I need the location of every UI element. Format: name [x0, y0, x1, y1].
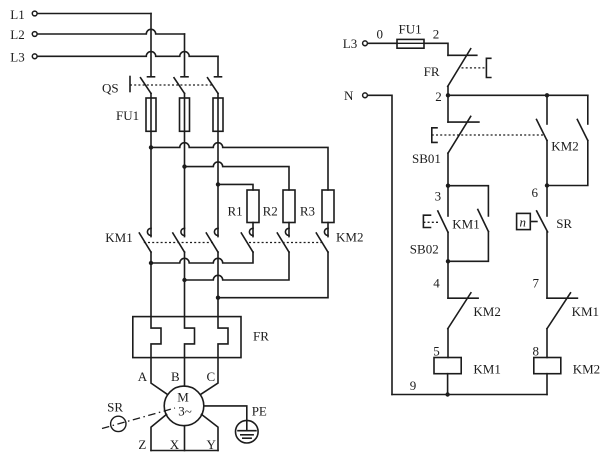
- svg-text:6: 6: [532, 185, 539, 200]
- node 3 junction: [446, 184, 450, 188]
- wire L2 pole drop: [184, 34, 186, 76]
- KM2 pole 2 fixed hook: [285, 228, 289, 235]
- branch KM2: SB01 NO contact top terminal: [546, 95, 548, 124]
- SB02 actuator bracket: [423, 215, 430, 227]
- wire FR contact to node 2: [447, 86, 449, 95]
- svg-text:KM1: KM1: [452, 217, 479, 232]
- ground PE symbol circle: [236, 420, 259, 443]
- junction pole 1 feed: [149, 145, 153, 149]
- svg-text:X: X: [170, 437, 180, 452]
- svg-text:2: 2: [435, 89, 442, 104]
- wire KM1 NC to node 8 / coil: [546, 329, 548, 358]
- terminal L3: [32, 54, 37, 59]
- wire SB01 to node 3: [447, 153, 449, 186]
- junction node 2 at KM2 branch: [545, 93, 549, 97]
- wire node 4 to KM2 NC: [447, 261, 449, 298]
- svg-text:KM2: KM2: [473, 304, 500, 319]
- resistor R1: [247, 190, 259, 223]
- KM2 NC fixed bar: [448, 297, 478, 299]
- fuse FU1 pole 3: [213, 98, 223, 131]
- KM1 NC fixed bar: [547, 297, 577, 299]
- svg-text:Y: Y: [207, 437, 217, 452]
- QS pole 2 fixed tick: [181, 76, 188, 78]
- SR n box: [517, 213, 531, 229]
- wire KM2 pole 1 bypass with hops: [151, 252, 253, 263]
- svg-text:4: 4: [433, 275, 440, 290]
- wire pole 1 to R3 with hops: [151, 143, 328, 190]
- svg-text:KM2: KM2: [551, 138, 578, 153]
- svg-text:PE: PE: [252, 404, 267, 419]
- junction KM2 pole 3 to main pole 3: [216, 296, 220, 300]
- wire motor lead Z: [151, 414, 167, 450]
- SR n box tick: [530, 221, 537, 223]
- FR heater pole 2 and wire to motor B: [185, 252, 195, 386]
- svg-text:SR: SR: [107, 400, 123, 415]
- svg-text:SB01: SB01: [412, 151, 441, 166]
- KM1 pole 3 fixed hook: [214, 228, 218, 235]
- wire SR to node 7: [546, 232, 548, 298]
- svg-text:B: B: [171, 369, 180, 384]
- wire N rail: [368, 95, 392, 394]
- wire coil KM1 to rail 9: [447, 374, 449, 395]
- svg-text:7: 7: [533, 275, 540, 290]
- svg-text:KM1: KM1: [473, 362, 500, 377]
- speed relay SR sensor circle: [111, 416, 126, 431]
- KM1 pole 1 fixed hook: [147, 228, 151, 235]
- KM2 pole 3 blade: [316, 233, 328, 252]
- wire pole 1 QS to KM1 contact: [150, 93, 152, 236]
- KM2 self-hold blade: [577, 120, 588, 141]
- terminal L2: [32, 32, 37, 37]
- wire R2 to KM2 pole 2: [288, 223, 290, 237]
- control: fuse FU1: [397, 39, 424, 48]
- control: wire L3 to fuse: [368, 42, 397, 44]
- FR heater pole 1 and wire to motor A: [151, 252, 168, 395]
- svg-text:KM1: KM1: [105, 230, 132, 245]
- resistor R3: [322, 190, 334, 223]
- wire pole 3 to R1: [218, 184, 253, 190]
- wire KM2 pole 2 bypass with hop: [185, 252, 290, 280]
- svg-text:M: M: [177, 389, 189, 404]
- SB01 NC blade: [448, 116, 471, 153]
- svg-text:A: A: [138, 369, 148, 384]
- svg-text:FR: FR: [253, 329, 269, 344]
- wire motor to PE: [204, 406, 247, 431]
- coil KM2: [534, 358, 561, 374]
- svg-text:KM2: KM2: [573, 362, 600, 377]
- FR NC contact blade: [448, 49, 471, 87]
- KM1 pole 1 blade: [139, 233, 151, 252]
- SB02 linkage dotted: [423, 221, 440, 223]
- wire rail 9: [392, 394, 547, 396]
- wire R3 to KM2 pole 3: [327, 223, 329, 237]
- SB02 NO blade: [438, 211, 448, 232]
- KM2 pole 1 blade: [241, 233, 253, 252]
- wire L1 pole drop: [150, 14, 152, 76]
- wire L2 horizontal with hop: [38, 29, 185, 34]
- wire to node 6: [546, 141, 548, 186]
- junction KM2 pole 1 to main pole 1: [149, 261, 153, 265]
- junction rail 9 at KM1 coil: [445, 392, 449, 396]
- motor M circle: [164, 386, 204, 426]
- disconnect QS handle bar: [129, 77, 131, 92]
- svg-text:SB02: SB02: [410, 242, 439, 257]
- SR contact top terminal: [546, 186, 548, 217]
- SR shaft link dash-dot: [102, 408, 175, 429]
- KM1 NC blade: [547, 293, 571, 329]
- svg-text:R1: R1: [228, 204, 243, 219]
- control: wire fuse to FR contact: [424, 43, 448, 55]
- resistor R2: [283, 190, 295, 223]
- svg-text:KM2: KM2: [336, 230, 363, 245]
- QS pole 1 blade: [141, 78, 152, 94]
- wire pole 2 QS to KM1 contact: [184, 93, 186, 236]
- FR trip actuator bracket: [486, 58, 490, 77]
- KM2 self-hold top terminal: [587, 95, 589, 124]
- FR NC contact fixed bar: [448, 54, 477, 56]
- wire KM2 pole 3 bypass: [218, 252, 328, 298]
- wire KM2 self-hold to node 6: [547, 141, 588, 186]
- svg-text:R3: R3: [300, 204, 315, 219]
- control: terminal L3: [363, 41, 368, 46]
- wire node 2 to SB01: [447, 95, 449, 122]
- wire R1 to KM2 pole 1: [252, 223, 254, 237]
- KM2 pole 2 blade: [277, 233, 289, 252]
- thermal relay FR box: [133, 317, 241, 358]
- svg-text:3: 3: [435, 189, 442, 204]
- KM1 linkage dotted: [144, 242, 215, 244]
- svg-text:FR: FR: [424, 64, 440, 79]
- svg-text:9: 9: [410, 378, 417, 393]
- SB02 NO top terminal: [447, 186, 449, 216]
- ground PE bar 3: [243, 437, 251, 439]
- terminal N: [363, 93, 368, 98]
- svg-text:FU1: FU1: [399, 22, 422, 37]
- coil KM1: [434, 358, 461, 374]
- svg-text:Z: Z: [138, 437, 146, 452]
- wire motor lead Y: [202, 414, 219, 450]
- wire SB02 to node 4: [447, 232, 449, 261]
- node 6 junction: [545, 183, 549, 187]
- svg-text:R2: R2: [263, 204, 278, 219]
- svg-text:SR: SR: [556, 216, 572, 231]
- svg-text:2: 2: [433, 26, 440, 41]
- SB01 linkage dotted to KM2 contact: [432, 134, 543, 136]
- svg-text:3~: 3~: [178, 404, 192, 419]
- KM2 pole 3 fixed hook: [324, 228, 328, 235]
- SB01 NC fixed bar: [448, 121, 479, 123]
- svg-text:8: 8: [533, 344, 540, 359]
- svg-text:N: N: [344, 88, 354, 103]
- KM2 NC blade: [448, 293, 471, 329]
- junction pole 2 feed: [182, 164, 186, 168]
- KM1 pole 2 blade: [173, 233, 185, 252]
- wire rotor short bar: [151, 450, 218, 452]
- terminal L1: [32, 11, 37, 16]
- wire L3 horizontal with hops: [38, 52, 218, 57]
- FR trip linkage dotted: [462, 67, 487, 69]
- KM2 linkage dotted: [249, 242, 322, 244]
- QS pole 3 blade: [208, 78, 219, 94]
- svg-text:L1: L1: [10, 7, 24, 22]
- svg-text:C: C: [207, 369, 216, 384]
- wire KM1 aux to node 4: [448, 232, 488, 262]
- svg-text:L3: L3: [343, 36, 357, 51]
- wire pole 2 to R2 with hop: [185, 162, 290, 190]
- KM2 pole 1 fixed hook: [249, 228, 253, 235]
- KM1 pole 3 blade: [206, 233, 218, 252]
- svg-text:5: 5: [433, 344, 440, 359]
- svg-text:KM1: KM1: [572, 304, 599, 319]
- KM1 pole 2 fixed hook: [181, 228, 185, 235]
- node 2 junction: [446, 93, 450, 97]
- wire KM2 NC to node 5 / coil: [447, 329, 449, 358]
- FR heater pole 3 and wire to motor C: [200, 252, 228, 395]
- svg-text:n: n: [520, 215, 527, 230]
- control: wire through fuse: [397, 42, 424, 44]
- QS pole 2 blade: [174, 78, 185, 94]
- SB01 NO linked blade: [537, 120, 548, 141]
- junction KM2 pole 2 to main pole 2: [182, 278, 186, 282]
- svg-text:QS: QS: [102, 81, 119, 96]
- svg-text:FU1: FU1: [116, 108, 139, 123]
- QS pole 3 fixed tick: [215, 76, 222, 78]
- wire pole 3 QS to KM1 contact: [217, 93, 219, 236]
- svg-text:L2: L2: [10, 27, 24, 42]
- SB01 actuator bracket: [432, 128, 437, 143]
- wire motor lead X: [184, 426, 186, 451]
- svg-text:0: 0: [377, 26, 384, 41]
- node 4 junction: [446, 259, 450, 263]
- SR contact blade: [537, 211, 548, 232]
- QS pole 1 fixed tick: [148, 76, 155, 78]
- fuse FU1 pole 2: [180, 98, 190, 131]
- svg-text:L3: L3: [10, 50, 24, 65]
- wire L3 pole drop: [217, 56, 219, 75]
- wire node 3 to KM1 aux: [448, 186, 488, 216]
- ground PE bar 1: [238, 430, 256, 432]
- junction pole 3 feed: [216, 182, 220, 186]
- wire coil KM2 to rail 9: [546, 374, 548, 395]
- ground PE bar 2: [241, 434, 253, 436]
- wire node 2 rail: [448, 94, 588, 96]
- wire L1 horizontal: [38, 13, 151, 15]
- fuse FU1 pole 1: [146, 98, 156, 131]
- disconnect QS linkage dotted: [130, 84, 212, 86]
- KM1 aux NO blade: [478, 210, 489, 232]
